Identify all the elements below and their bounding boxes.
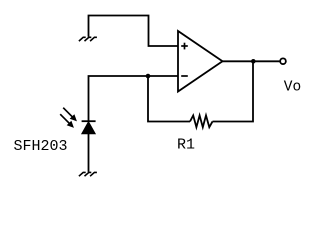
wire inverting input: photodiode node left, to op-amp minus xyxy=(89,76,179,121)
node A junction dot at inverting input xyxy=(146,74,151,79)
light arrow 2 xyxy=(60,114,73,127)
photodiode SFH203 cathode bar xyxy=(82,120,96,122)
resistor R1 xyxy=(190,115,213,127)
op-amp U1 xyxy=(178,31,223,92)
wire output xyxy=(223,60,280,62)
ground bottom xyxy=(79,172,97,176)
svg-text:R1: R1 xyxy=(177,137,195,154)
wire anode to ground xyxy=(88,134,90,172)
svg-text:SFH203: SFH203 xyxy=(14,138,68,155)
svg-text:Vo: Vo xyxy=(284,79,301,95)
ground top-left xyxy=(79,37,97,41)
photodiode SFH203 body xyxy=(82,122,95,134)
wire top rail: ground up, right, down to non-inverting input xyxy=(89,16,179,47)
wire feedback right: resistor to output node xyxy=(213,61,254,121)
light arrow 1 xyxy=(63,108,76,121)
wire feedback: down from junction, right to resistor xyxy=(148,76,190,122)
node output junction dot xyxy=(251,59,256,64)
terminal Vo open circle xyxy=(280,58,286,64)
